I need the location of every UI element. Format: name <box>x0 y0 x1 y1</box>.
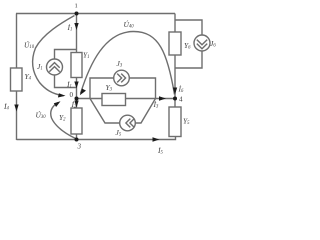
wire Y6 bottom <box>174 55 176 68</box>
wire right vertical node4 up <box>174 68 176 99</box>
wire node1 to Y1 <box>76 14 78 53</box>
current arrow I1 top <box>74 23 78 30</box>
svg-text:Y3: Y3 <box>106 83 113 92</box>
svg-text:İ3: İ3 <box>153 100 160 109</box>
admittance Y4 <box>11 68 23 91</box>
admittance Y3 <box>102 94 126 106</box>
Y6 J6 bottom connection <box>175 51 202 68</box>
wire left vertical <box>16 14 18 69</box>
voltage U10 arrowhead <box>58 93 66 97</box>
wire top corner to Y6 <box>174 14 176 33</box>
svg-text:Y5: Y5 <box>183 117 190 126</box>
svg-text:J1: J1 <box>37 62 43 71</box>
node 1 <box>75 12 79 16</box>
wire top rail <box>16 13 175 15</box>
admittance Y5 <box>169 107 181 137</box>
current source J5 <box>120 115 136 131</box>
node 4 <box>173 97 177 101</box>
svg-text:J5: J5 <box>116 128 122 137</box>
svg-text:Y6: Y6 <box>184 41 191 50</box>
svg-text:0: 0 <box>70 91 74 99</box>
current arrow I6 <box>173 88 177 95</box>
voltage U30 arrowhead <box>54 101 61 107</box>
admittance Y2 <box>71 108 82 134</box>
svg-text:3: 3 <box>77 143 82 151</box>
svg-text:Ú30: Ú30 <box>36 110 47 120</box>
svg-text:İ1: İ1 <box>67 23 73 32</box>
svg-text:İ5: İ5 <box>157 146 164 155</box>
svg-text:İ4: İ4 <box>3 102 10 111</box>
current source J1 <box>47 59 63 75</box>
current source J6 <box>194 35 210 51</box>
voltage U40 arrowhead <box>80 89 86 96</box>
wire Y1 to node0 <box>76 78 78 99</box>
voltage U40 arc <box>81 31 175 94</box>
wire middle rail node0 to node4 <box>77 98 176 100</box>
admittance Y6 <box>169 32 181 55</box>
node 0 <box>75 97 79 101</box>
svg-text:Ú40: Ú40 <box>124 19 135 29</box>
node 3 <box>75 138 79 142</box>
wire Y2 to node3 <box>76 134 78 140</box>
wire left lower <box>16 91 18 140</box>
J6 top connection <box>175 20 202 35</box>
svg-text:İ6: İ6 <box>178 85 185 94</box>
admittance Y1 <box>71 53 82 78</box>
svg-text:Y2: Y2 <box>59 113 66 122</box>
current arrow I5 <box>153 137 160 141</box>
wire bottom rail <box>17 137 176 140</box>
svg-text:İ1: İ1 <box>66 80 72 89</box>
current arrow I3 <box>159 96 166 100</box>
current source J5 branch wires <box>90 99 120 124</box>
voltage U30 arc <box>51 103 77 140</box>
voltage U10 arc <box>33 16 75 96</box>
wire node4 to Y5 <box>174 99 176 108</box>
svg-text:J3: J3 <box>117 59 123 68</box>
current source J1 stems <box>55 50 77 60</box>
svg-text:4: 4 <box>179 96 183 104</box>
current arrow I2 <box>74 101 78 108</box>
current arrow I1 lower <box>74 82 78 89</box>
svg-text:Ú10: Ú10 <box>24 40 35 50</box>
current source J3 <box>114 70 130 86</box>
svg-text:Y4: Y4 <box>25 72 32 81</box>
current arrow I4 <box>14 105 18 112</box>
svg-text:Y1: Y1 <box>83 51 90 60</box>
wire node0 to Y2 <box>76 99 78 109</box>
svg-text:J6: J6 <box>210 39 216 48</box>
current source J3 branch wires <box>90 78 114 99</box>
svg-text:1: 1 <box>75 3 78 10</box>
